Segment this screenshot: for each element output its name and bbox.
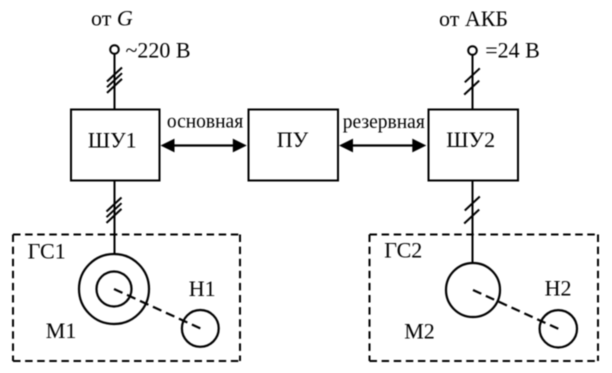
block ПУ (249, 110, 339, 181)
three-phase slash marks on M1 wire (107, 198, 122, 223)
three-phase slash marks on G wire (107, 68, 122, 93)
wire from G terminal to ШУ1 (114, 54, 116, 110)
motor M2 circle (446, 263, 500, 317)
double arrow ПУ–ШУ2 (339, 139, 426, 153)
svg-text:от G: от G (91, 5, 133, 30)
motor M1 inner circle (97, 272, 132, 307)
svg-text:основная: основная (167, 111, 243, 132)
label Н1 (189, 276, 216, 301)
wire ШУ1 to motor M1 (114, 181, 116, 255)
wire ШУ2 to motor M2 (472, 181, 474, 264)
double arrow ШУ1–ПУ (161, 139, 247, 153)
svg-text:ГС2: ГС2 (384, 238, 422, 263)
label М1 (46, 318, 77, 343)
motor M1 outer circle (79, 254, 149, 324)
label "от G" (source G) (91, 5, 133, 30)
two-wire slash marks on M2 wire (464, 197, 480, 224)
label "~220 В" (126, 38, 191, 63)
svg-text:~220 В: ~220 В (126, 38, 191, 63)
svg-text:Н1: Н1 (189, 276, 216, 301)
label Н2 (545, 276, 572, 301)
dashed enclosure ГС2 (370, 235, 599, 362)
svg-text:ШУ1: ШУ1 (88, 128, 137, 153)
label "=24 В" (485, 38, 540, 63)
block ШУ2 (429, 110, 519, 181)
terminal circle from G (110, 45, 119, 54)
pump H2 circle (540, 310, 577, 347)
svg-text:резервная: резервная (343, 112, 425, 133)
wire from АКБ terminal to ШУ2 (472, 55, 474, 110)
svg-text:=24 В: =24 В (485, 38, 540, 63)
label "от АКБ" (from battery) (439, 6, 508, 31)
label "резервная" (reserve link) (343, 112, 425, 133)
svg-text:от АКБ: от АКБ (439, 6, 508, 31)
svg-text:ШУ2: ШУ2 (446, 127, 495, 152)
block ШУ1 (71, 110, 160, 181)
svg-text:ГС1: ГС1 (28, 239, 66, 264)
terminal circle from АКБ (468, 46, 477, 55)
two-wire slash marks on АКБ wire (464, 68, 480, 94)
svg-text:Н2: Н2 (545, 276, 572, 301)
label "основная" (main link) (167, 111, 243, 132)
label М2 (404, 319, 435, 344)
dashed shaft link M2–H2 (473, 290, 558, 329)
svg-text:ПУ: ПУ (277, 127, 309, 152)
svg-text:М1: М1 (46, 318, 77, 343)
dashed shaft link M1–H1 (114, 289, 200, 328)
pump H1 circle (182, 310, 219, 347)
dashed enclosure ГС1 (13, 235, 240, 362)
svg-text:М2: М2 (404, 319, 435, 344)
